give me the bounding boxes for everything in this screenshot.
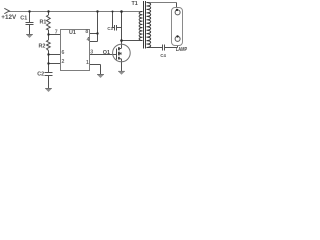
svg-text:T1: T1: [132, 1, 138, 7]
svg-text:8: 8: [85, 29, 88, 35]
svg-text:U1: U1: [69, 30, 76, 36]
svg-text:C2: C2: [37, 72, 44, 78]
svg-text:C3: C3: [107, 26, 113, 32]
svg-text:Q1: Q1: [103, 50, 110, 56]
svg-text:R2: R2: [39, 44, 46, 50]
svg-text:+12V: +12V: [1, 14, 17, 21]
svg-text:C4: C4: [160, 53, 166, 59]
svg-text:LAMP: LAMP: [176, 47, 188, 53]
svg-text:1: 1: [86, 60, 89, 66]
svg-text:4: 4: [87, 37, 90, 43]
svg-text:3: 3: [90, 50, 93, 56]
svg-text:C1: C1: [20, 16, 27, 22]
svg-text:2: 2: [62, 59, 65, 65]
svg-text:R1: R1: [40, 20, 47, 26]
svg-text:7: 7: [55, 29, 58, 35]
svg-text:6: 6: [62, 50, 65, 56]
